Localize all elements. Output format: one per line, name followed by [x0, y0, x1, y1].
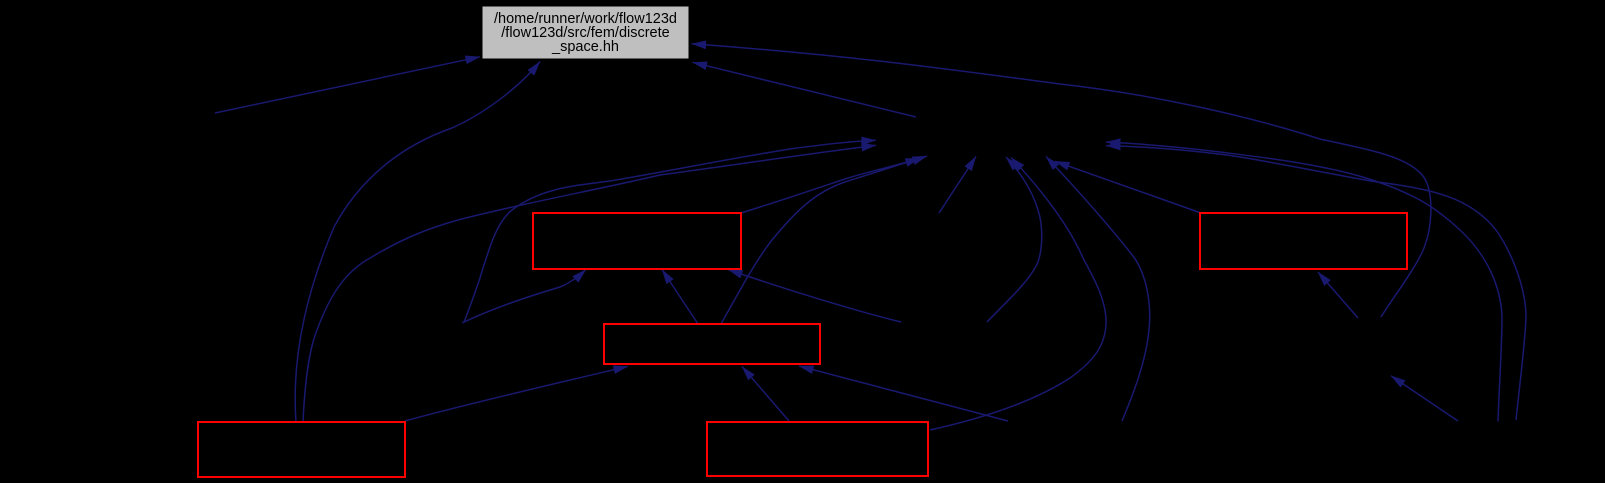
- node box2 red: [1200, 213, 1407, 269]
- wire edge box2 to node A bottom: [1055, 161, 1201, 213]
- node box4 red: [198, 422, 405, 477]
- wire edge box3 to box1 bottom: [662, 270, 698, 325]
- wire edge R to node A bottom: [987, 157, 1042, 322]
- wire edge box5 right to node A bottom: [930, 158, 1106, 431]
- wire edge box3 to node A bottom (left of pair): [721, 158, 920, 324]
- wire edge V strand outer to node A right edge: [1106, 146, 1526, 420]
- wire edge W to root (big right arc over box2): [692, 44, 1431, 317]
- svg-text:_space.hh: _space.hh: [551, 39, 619, 55]
- wire edge R to box1 bottom-right: [728, 270, 901, 323]
- wire edge box5 to box3 bottom: [742, 367, 789, 422]
- node root grey box: [482, 6, 689, 59]
- wire edge U to box1 bottom-left: [462, 270, 586, 324]
- node box1 red: [533, 213, 741, 269]
- wire edge U to node A left edge (upper): [464, 140, 876, 322]
- wire edge box4 to node A left edge (lower): [303, 145, 876, 422]
- wire edge box4 to root (steep left curve): [295, 62, 540, 423]
- wire edge box1 to node A bottom (right of pair): [741, 156, 927, 213]
- wire edge A to root right corner: [693, 62, 917, 117]
- wire edge L1 to root: [215, 57, 480, 113]
- wire edge W to box2: [1318, 272, 1358, 318]
- wire edge box4 to box3 bottom: [405, 366, 628, 421]
- wire edge M to node A bottom: [939, 157, 976, 214]
- wire edge Z to box3 bottom: [799, 366, 1008, 421]
- wire edge V to W bottom: [1391, 376, 1458, 421]
- node box3 red: [604, 324, 820, 364]
- wire edge V strand inner to node A right edge: [1106, 142, 1502, 422]
- node box5 red: [707, 422, 928, 476]
- wire edge Z to node A bottom: [1046, 157, 1150, 422]
